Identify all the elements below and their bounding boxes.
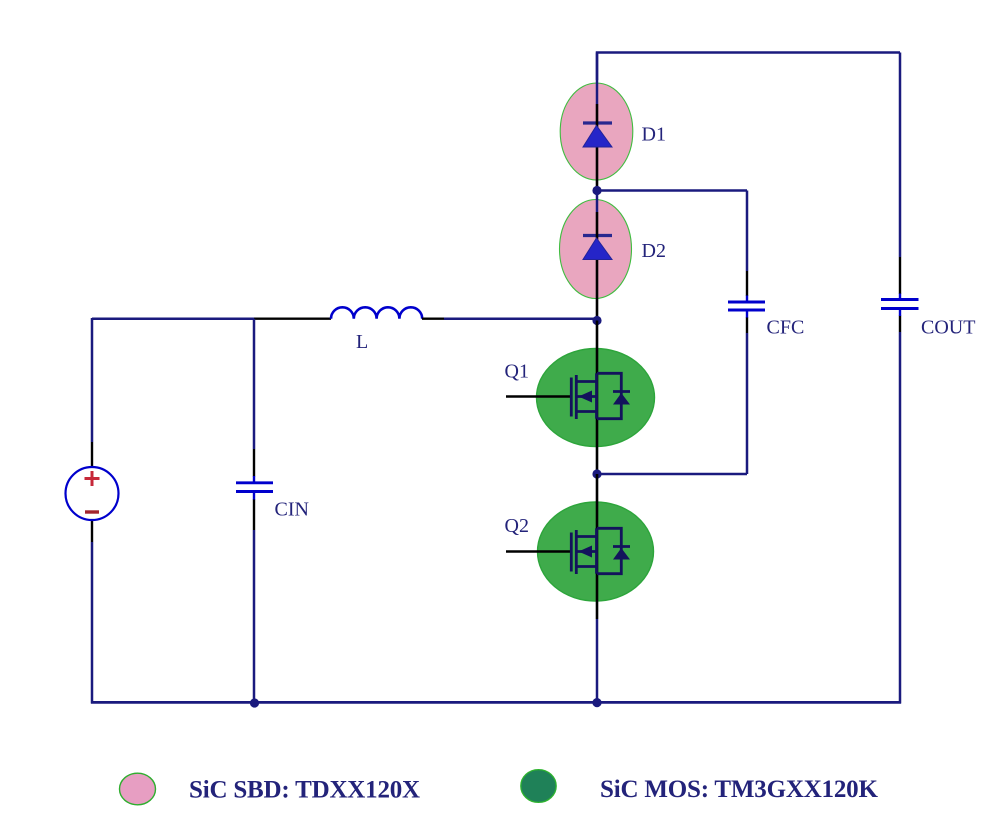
legend MOS ellipse: [521, 770, 556, 803]
wire bottom horizontal: [91, 701, 901, 704]
wire black segment inductor right: [422, 318, 444, 320]
node D1-D2 junction: [592, 186, 601, 195]
svg-text:Q2: Q2: [505, 515, 529, 537]
capacitor COUT: [881, 294, 919, 317]
node Q1-Q2 junction: [592, 469, 601, 478]
transistor Q2 ellipse: [538, 502, 654, 601]
node bottom CIN junction: [250, 698, 259, 707]
wire CIN branch navy upper: [253, 319, 256, 449]
diode D1 symbol triangle: [583, 126, 612, 148]
wire CFC bottom horizontal to node Q1-Q2: [597, 473, 747, 476]
wire CFC vertical navy upper: [746, 191, 749, 272]
diode D2 ellipse: [560, 200, 632, 299]
svg-text:D1: D1: [642, 124, 666, 146]
diode D1 ellipse: [560, 83, 633, 180]
center column black through Q1: [596, 321, 599, 475]
wire black segment above CFC: [746, 271, 748, 296]
capacitor CIN: [236, 476, 273, 500]
transistor Q2 symbol: [506, 528, 630, 574]
capacitor CFC: [728, 296, 765, 319]
center column black through Q2: [596, 474, 599, 619]
wire top-left horizontal (source to node CIN): [92, 317, 254, 320]
wire black segment above source: [91, 442, 93, 468]
center column black D2 to Q1 node: [596, 212, 599, 321]
wire right vertical COUT branch lower: [899, 332, 902, 704]
center column navy below Q2: [596, 619, 599, 703]
legend SBD ellipse: [120, 773, 156, 805]
center column navy top: [596, 53, 599, 105]
voltage source V: [66, 467, 119, 520]
svg-text:CIN: CIN: [275, 499, 309, 521]
svg-text:SiC SBD: TDXX120X: SiC SBD: TDXX120X: [189, 777, 420, 804]
diode D2 symbol triangle: [583, 238, 612, 260]
transistor Q1 symbol: [506, 373, 630, 419]
wire left vertical upper: [91, 318, 94, 442]
center column navy below D1-D2 node: [596, 191, 599, 213]
wire inductor to center column: [444, 317, 598, 320]
svg-text:D2: D2: [642, 240, 666, 262]
wire black segment below CIN: [253, 500, 255, 531]
wire top horizontal (node D1 top to COUT top): [597, 53, 900, 81]
wire black segment below CFC: [746, 318, 748, 334]
wire CFC vertical navy lower: [746, 333, 749, 474]
wire right vertical COUT branch upper: [899, 53, 902, 258]
wire CIN branch navy lower: [253, 530, 256, 703]
node L / D2 / Q1 junction: [592, 316, 601, 325]
svg-text:L: L: [356, 331, 368, 353]
diode D2 symbol cathode bar: [583, 234, 612, 237]
wire black segment below source: [91, 520, 93, 542]
wire black segment above COUT: [899, 257, 901, 294]
diode D1 symbol cathode bar: [583, 121, 612, 124]
wire left vertical lower: [91, 542, 94, 704]
transistor Q1 ellipse: [537, 349, 655, 447]
svg-text:Q1: Q1: [505, 361, 529, 383]
inductor L coil: [331, 307, 422, 318]
center column black through D1: [596, 104, 599, 191]
svg-text:COUT: COUT: [921, 317, 975, 339]
svg-text:CFC: CFC: [767, 317, 805, 339]
wire CFC top horizontal: [597, 189, 747, 192]
node bottom center junction: [592, 698, 601, 707]
wire black segment above CIN: [253, 449, 255, 477]
svg-text:SiC MOS: TM3GXX120K: SiC MOS: TM3GXX120K: [600, 776, 878, 803]
wire black segment node to inductor: [254, 318, 331, 320]
wire black segment below COUT: [899, 316, 901, 333]
